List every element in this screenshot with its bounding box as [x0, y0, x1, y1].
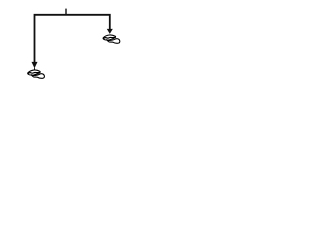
- lower shoe outline (heel curl, sole, toe hook, opening): [31, 74, 44, 79]
- wire: horizontal bar with left and right vertical drops: [35, 15, 110, 62]
- node stem tick at top center: [65, 9, 67, 16]
- upper shoe opening wavy line: [28, 72, 39, 73]
- arrowhead left (pointer to left shoes): [32, 62, 38, 68]
- upper shoe hull: [28, 70, 40, 75]
- icon: pair of shoes (left object): [28, 70, 45, 78]
- arrow tip bridge into left shoes icon: [33, 68, 35, 70]
- arrowhead right (pointer to right shoes): [107, 29, 113, 34]
- icon: pair of shoes (right object): [103, 35, 120, 43]
